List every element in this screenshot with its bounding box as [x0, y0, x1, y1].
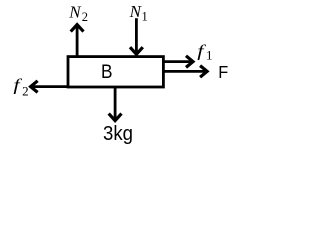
svg-text:2: 2	[22, 84, 29, 99]
label N1	[129, 2, 148, 23]
svg-text:3kg: 3kg	[103, 123, 133, 145]
svg-text:N: N	[68, 3, 82, 22]
label f1	[197, 43, 212, 62]
svg-text:2: 2	[82, 10, 88, 24]
svg-text:F: F	[218, 62, 228, 82]
force F arrow (right)	[163, 66, 207, 78]
svg-text:B: B	[101, 62, 113, 83]
label f2	[13, 77, 28, 99]
svg-text:N: N	[129, 2, 143, 21]
block B (rectangle)	[68, 57, 163, 87]
force f2 arrow (left)	[31, 81, 68, 93]
svg-text:1: 1	[142, 9, 148, 23]
label N2	[68, 3, 88, 24]
force f1 arrow (right)	[163, 56, 193, 68]
force N2 arrow (up)	[71, 25, 84, 57]
svg-text:1: 1	[206, 47, 213, 62]
weight arrow 3kg (down)	[109, 88, 122, 121]
svg-text:f: f	[197, 43, 206, 61]
force N1 arrow (down)	[130, 18, 143, 54]
